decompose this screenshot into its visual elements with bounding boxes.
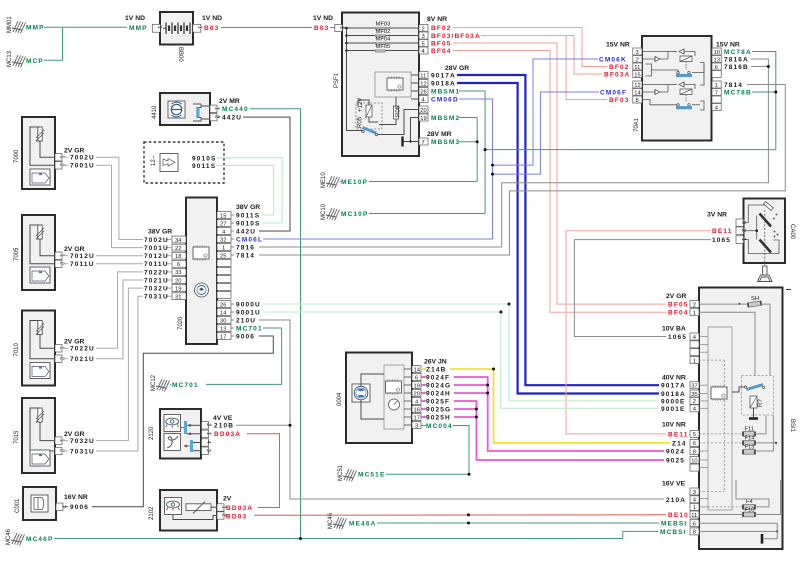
svg-text:9024G: 9024G: [426, 382, 451, 389]
wire B03 to PSF1: [221, 27, 312, 29]
svg-text:ME46A: ME46A: [349, 520, 376, 527]
wire MC46P: [54, 531, 658, 538]
svg-text:9025F: 9025F: [426, 398, 450, 405]
wire CM06F: [493, 92, 600, 174]
svg-text:11: 11: [691, 513, 697, 519]
svg-text:442U: 442U: [222, 115, 242, 122]
ground MC46 (MC46P): [6, 528, 25, 545]
wire 9024H: [421, 392, 426, 394]
wire MC78B: [752, 91, 776, 93]
BSI pin 11 (BE10): [690, 511, 699, 518]
svg-text:17: 17: [414, 415, 420, 421]
7005 pin 1: [55, 252, 62, 259]
svg-text:9000E: 9000E: [661, 398, 686, 405]
BSI pin 6 (Z14): [690, 439, 699, 446]
svg-text:19: 19: [175, 286, 181, 292]
wire BE11: [566, 231, 711, 434]
wire 9025G: [421, 408, 426, 410]
0004 pin 14: [412, 366, 421, 373]
svg-text:442U: 442U: [236, 228, 256, 235]
svg-text:SH: SH: [751, 296, 759, 302]
svg-text:8: 8: [636, 98, 639, 104]
svg-text:22: 22: [175, 246, 181, 252]
2120 pin 4: [202, 439, 209, 446]
svg-text:CA00: CA00: [789, 224, 795, 240]
svg-text:MC10P: MC10P: [341, 211, 368, 218]
svg-text:BD03A: BD03A: [214, 431, 241, 438]
7020 pin 13: [217, 325, 231, 332]
wire 9000U/9000E: [263, 304, 659, 401]
svg-text:32: 32: [220, 237, 226, 243]
7015 pin 1: [55, 437, 62, 444]
svg-text:12: 12: [634, 83, 640, 89]
ground MC10: [321, 203, 340, 220]
wire MMP: [44, 26, 127, 28]
svg-text:BB00: BB00: [177, 47, 183, 62]
wire 7011U: [96, 263, 143, 265]
7020 pin 18: [172, 252, 186, 259]
2120 pin 3: [202, 447, 209, 454]
BSI pin 1: [690, 309, 699, 316]
svg-text:BD03: BD03: [226, 513, 247, 520]
coolant temp indicator 2102: [149, 490, 217, 531]
svg-text:0004: 0004: [337, 392, 343, 406]
svg-text:MC78B: MC78B: [724, 90, 752, 97]
svg-text:MBSM3: MBSM3: [431, 139, 460, 146]
relay in BSI: [732, 376, 774, 419]
svg-text:15: 15: [220, 213, 226, 219]
svg-text:26: 26: [220, 302, 226, 308]
svg-text:7816B: 7816B: [724, 64, 749, 71]
svg-text:Z14B: Z14B: [426, 366, 447, 373]
wire 7814: [259, 85, 785, 256]
svg-text:2: 2: [636, 57, 639, 63]
junction on BD03/BE10: [467, 513, 470, 516]
4410 pin 1: [210, 105, 217, 112]
0004 pin 6: [412, 374, 421, 381]
70A1 left pins 3,2,11,15,12,14,8: [633, 48, 642, 55]
internal ground of BSI: [764, 531, 778, 538]
fusebox PSF1: [334, 13, 419, 157]
wire 9011S: [216, 165, 274, 215]
2120 pin 2: [202, 422, 209, 429]
svg-text:BF04: BF04: [668, 310, 689, 317]
internal ground of PSF1: [403, 141, 420, 143]
svg-text:7022U: 7022U: [144, 269, 169, 276]
svg-text:26V JN: 26V JN: [424, 358, 447, 365]
0004 pin 19: [412, 382, 421, 389]
wire BD03/BE10: [224, 514, 226, 516]
BSI pin 4 (1065): [690, 333, 699, 340]
svg-text:MC46: MC46: [6, 528, 12, 545]
wire MC004: [421, 425, 426, 427]
svg-text:210A: 210A: [666, 497, 686, 504]
svg-text:12--: 12--: [151, 155, 157, 166]
wire BF05: [453, 43, 666, 304]
wire 9017A: [457, 75, 659, 385]
wire BF02: [453, 28, 607, 67]
svg-text:2V GR: 2V GR: [64, 431, 84, 438]
svg-text:70A1: 70A1: [634, 117, 640, 132]
connector C001: [15, 487, 56, 520]
CA00 pin 3: [736, 219, 744, 227]
svg-text:2: 2: [740, 229, 746, 232]
wire 1065: [574, 240, 711, 337]
svg-text:2V GR: 2V GR: [64, 246, 84, 253]
svg-text:7001U: 7001U: [144, 245, 169, 252]
svg-text:16: 16: [414, 407, 420, 413]
svg-text:BSI1: BSI1: [789, 419, 795, 433]
svg-text:MBSM1: MBSM1: [431, 89, 460, 96]
wire MC701 ground stub: [170, 383, 171, 385]
7000 pin 1: [55, 154, 62, 161]
BSI pin 1 (10V BA): [690, 357, 699, 364]
svg-text:1065: 1065: [712, 237, 731, 244]
svg-text:PSF1: PSF1: [334, 72, 340, 88]
blower module 0004: [337, 353, 412, 444]
svg-text:BF02: BF02: [431, 25, 452, 32]
4410 pin 2: [210, 113, 217, 120]
engine ECU 7020: [178, 198, 217, 345]
BSI inner module: [708, 327, 732, 510]
junction MC004/MC51E: [468, 473, 471, 476]
svg-text:1: 1: [156, 26, 162, 29]
wire BF04: [453, 51, 666, 313]
PSF1 pin 19: [419, 114, 428, 121]
svg-text:9006: 9006: [70, 504, 89, 511]
wire 7021U: [96, 280, 143, 359]
svg-text:B03: B03: [314, 25, 329, 32]
BSI pin 37: [690, 382, 699, 389]
PSF1 pin 4: [419, 47, 428, 54]
svg-text:7015: 7015: [14, 430, 20, 444]
svg-text:9024F: 9024F: [426, 374, 450, 381]
svg-text:6: 6: [693, 522, 696, 528]
svg-text:20: 20: [414, 391, 420, 397]
2102 pin 2: [217, 512, 224, 519]
svg-text:MF02: MF02: [376, 29, 391, 35]
svg-text:9010S: 9010S: [192, 155, 217, 162]
svg-text:35: 35: [691, 392, 697, 398]
wire 9018A: [457, 83, 659, 394]
BSI pin 5: [690, 430, 699, 437]
svg-text:6: 6: [177, 262, 180, 268]
wire BD03A: [209, 433, 212, 435]
7020 pin 14: [217, 309, 231, 316]
svg-text:9001U: 9001U: [236, 309, 261, 316]
svg-text:15: 15: [634, 72, 640, 78]
svg-text:MC701: MC701: [236, 325, 263, 332]
70A1 internals: bottom relay: [642, 82, 704, 110]
wire MC78A: [752, 52, 776, 150]
wire 210B: [209, 424, 212, 426]
svg-text:7: 7: [715, 90, 718, 96]
BSI pin 2: [690, 301, 699, 308]
junctions CM06: [491, 164, 494, 167]
svg-text:BF02: BF02: [609, 64, 630, 71]
svg-text:1V ND: 1V ND: [313, 15, 333, 22]
svg-text:MC12: MC12: [151, 374, 157, 391]
svg-text:7010: 7010: [14, 342, 20, 356]
svg-text:MBSM2: MBSM2: [431, 115, 460, 122]
BSI pin 2 (9000E): [690, 397, 699, 404]
svg-text:7021U: 7021U: [144, 277, 169, 284]
wire 210U: [259, 320, 664, 499]
svg-text:210B: 210B: [214, 423, 234, 430]
ground MC13: [7, 50, 26, 67]
svg-text:20: 20: [420, 108, 426, 114]
svg-text:3V NR: 3V NR: [707, 212, 727, 219]
svg-text:16V NR: 16V NR: [64, 494, 88, 501]
svg-text:MC51: MC51: [338, 464, 344, 481]
svg-text:MMP: MMP: [129, 25, 148, 32]
svg-text:7002U: 7002U: [144, 237, 169, 244]
svg-text:7031U: 7031U: [144, 294, 169, 301]
key symbol below CA00: [758, 263, 773, 282]
svg-text:14: 14: [634, 90, 641, 96]
svg-text:1065: 1065: [668, 334, 687, 341]
svg-text:9017A: 9017A: [431, 73, 456, 80]
BSI pin 3: [690, 488, 699, 495]
fuse MF04: [375, 42, 385, 45]
wire MBSM3: [459, 142, 477, 182]
svg-text:5: 5: [422, 41, 425, 47]
70A1 internals: top relay: [642, 49, 704, 85]
svg-text:15V NR: 15V NR: [716, 41, 740, 48]
svg-text:7020: 7020: [178, 316, 184, 330]
7020 pin 26: [217, 301, 231, 308]
wire 7002U: [96, 157, 143, 239]
wire 7032U: [96, 288, 143, 441]
svg-text:7031U: 7031U: [70, 448, 95, 455]
svg-text:6: 6: [715, 65, 718, 71]
svg-text:1V ND: 1V ND: [202, 15, 222, 22]
svg-text:7814: 7814: [236, 252, 255, 259]
wire 7022U: [96, 272, 143, 348]
svg-text:MC13: MC13: [7, 50, 13, 67]
svg-text:MC78A: MC78A: [724, 49, 752, 56]
wire Z14B/Z14: [421, 368, 426, 370]
wire 7816B: [751, 66, 768, 68]
svg-text:ME10: ME10: [321, 172, 327, 188]
7020 pin 33: [172, 269, 186, 276]
wire BF03A: [481, 36, 602, 75]
7000 pin 2: [55, 162, 62, 169]
svg-text:7032U: 7032U: [144, 286, 169, 293]
7020 pin 22: [172, 244, 186, 251]
blue tick top right: [786, 289, 791, 291]
svg-text:7814: 7814: [724, 82, 743, 89]
svg-text:ME10P: ME10P: [341, 179, 368, 186]
svg-text:BE11: BE11: [712, 228, 733, 235]
wire 442U: [217, 116, 220, 118]
svg-text:R06: R06: [396, 105, 402, 117]
svg-text:BF03/BF03A: BF03/BF03A: [431, 33, 481, 40]
svg-text:3: 3: [205, 449, 211, 452]
svg-text:1: 1: [197, 26, 203, 29]
svg-text:7000: 7000: [14, 149, 20, 163]
wire MC701: [206, 328, 282, 384]
svg-text:7012U: 7012U: [70, 253, 95, 260]
svg-text:9017A: 9017A: [661, 383, 686, 390]
svg-text:BE10: BE10: [668, 512, 689, 519]
wire 9025F: [421, 400, 426, 402]
PSF1 pin 12: [419, 80, 428, 87]
svg-text:7: 7: [422, 140, 425, 146]
0004 pin 16: [412, 406, 421, 413]
svg-text:12: 12: [420, 81, 426, 87]
svg-text:2V GR: 2V GR: [64, 148, 84, 155]
wire 7001U: [96, 165, 143, 247]
svg-text:18: 18: [175, 254, 181, 260]
svg-text:28V MR: 28V MR: [427, 131, 452, 138]
svg-text:CM06D: CM06D: [431, 97, 459, 104]
PSF1 pin 20: [419, 106, 428, 113]
C001 pin 7: [56, 503, 63, 510]
svg-text:13: 13: [714, 57, 720, 63]
ground MM01: [7, 16, 26, 34]
horn 4410: [152, 93, 210, 125]
svg-text:3: 3: [422, 34, 425, 40]
svg-text:10: 10: [714, 50, 720, 56]
svg-text:37: 37: [691, 384, 697, 390]
svg-text:7012U: 7012U: [144, 253, 169, 260]
svg-text:9018A: 9018A: [431, 81, 456, 88]
svg-text:MC10: MC10: [321, 203, 327, 220]
svg-text:2V: 2V: [223, 496, 232, 503]
relay in PSF1: [356, 98, 382, 136]
svg-text:1: 1: [693, 505, 696, 511]
7005 pin 2: [55, 260, 62, 267]
2120 pin 1: [202, 430, 209, 437]
PSF1 pin 2: [419, 25, 428, 32]
7020 pin 4: [217, 228, 231, 235]
fuse MF03: [375, 27, 385, 30]
wires to pins 20/19 inside PSF1: [378, 110, 419, 135]
7020 pin 19: [172, 285, 186, 292]
svg-text:R?: R?: [758, 399, 764, 407]
7020 pin 30: [217, 317, 231, 324]
wire MC51E: [386, 473, 469, 475]
wire CM06L: [263, 238, 493, 240]
junction MBSM2/MBSM3: [476, 140, 479, 143]
svg-text:R05: R05: [358, 116, 364, 128]
0004 pin 3: [412, 422, 421, 429]
svg-text:15V NR: 15V NR: [606, 41, 630, 48]
ground MC12: [151, 374, 170, 391]
BSI pin 1 (16V VE): [690, 503, 699, 510]
wire ME10P: [340, 181, 341, 183]
svg-text:4410: 4410: [152, 105, 158, 119]
wire 7816A: [259, 59, 768, 247]
svg-text:34: 34: [175, 238, 182, 244]
junction 210B/210U: [289, 424, 292, 427]
junction on ME46A: [467, 522, 470, 525]
7020 pin 31: [172, 293, 186, 300]
svg-text:1: 1: [715, 83, 718, 89]
wire CM06D: [459, 99, 493, 239]
svg-text:9024H: 9024H: [426, 390, 451, 397]
svg-text:210U: 210U: [236, 317, 256, 324]
svg-text:MC440: MC440: [222, 106, 249, 113]
svg-text:1: 1: [339, 26, 345, 29]
body controller BSI1: [699, 288, 795, 550]
svg-text:2V GR: 2V GR: [666, 293, 686, 300]
PSF1 pin 26: [419, 88, 428, 95]
svg-text:1: 1: [693, 311, 696, 317]
CA00 pin 1: [736, 236, 744, 244]
svg-text:BF03A: BF03A: [604, 72, 630, 79]
fuse MF02: [375, 35, 385, 38]
wire 9010S: [216, 158, 282, 223]
svg-text:2V MR: 2V MR: [219, 98, 240, 105]
svg-text:BE11: BE11: [668, 431, 689, 438]
0004 pin 20: [412, 390, 421, 397]
ground MC51: [338, 464, 357, 481]
svg-text:CM06F: CM06F: [600, 90, 627, 97]
svg-text:MEBSI: MEBSI: [661, 521, 687, 528]
svg-text:10V BA: 10V BA: [662, 325, 686, 332]
PSF1 pin 4b: [419, 96, 428, 103]
svg-text:MC701: MC701: [172, 382, 199, 389]
svg-text:10V NR: 10V NR: [662, 421, 686, 428]
battery BB00: [152, 12, 202, 62]
7010 pin 2: [55, 355, 62, 362]
0004 pin 17: [412, 414, 421, 421]
svg-text:40V NR: 40V NR: [662, 374, 686, 381]
svg-text:5: 5: [693, 432, 696, 438]
BSI pin 6 (MEBSI): [690, 520, 699, 527]
7020 pin 32: [217, 236, 231, 243]
svg-text:33: 33: [175, 270, 181, 276]
7020 pin 6: [172, 260, 186, 267]
svg-text:2: 2: [422, 26, 425, 32]
ground ME10: [321, 172, 340, 189]
wire 7031U: [96, 296, 143, 451]
wire ME46A: [377, 522, 659, 524]
svg-text:MCBSI: MCBSI: [660, 529, 687, 536]
svg-text:7011U: 7011U: [144, 261, 169, 268]
sensor 7015: [14, 398, 55, 473]
PSF1 pin 7: [419, 138, 428, 145]
svg-text:Z14: Z14: [672, 440, 687, 447]
svg-text:MCP: MCP: [26, 58, 44, 65]
svg-text:1: 1: [693, 358, 696, 364]
7020 pin 15: [217, 212, 231, 219]
wire MCP: [44, 27, 63, 60]
BSI pin 8 (9024): [690, 448, 699, 455]
svg-text:8: 8: [693, 449, 696, 455]
wire BF03 branch: [566, 36, 607, 100]
svg-text:7022U: 7022U: [70, 346, 95, 353]
junction MC440/MC46P: [299, 537, 302, 540]
svg-text:BF04: BF04: [431, 48, 452, 55]
svg-text:CM06K: CM06K: [599, 57, 627, 64]
controller block inside PSF1: [375, 72, 411, 97]
svg-text:CM06L: CM06L: [236, 236, 263, 243]
svg-text:9001E: 9001E: [661, 406, 686, 413]
svg-text:13: 13: [220, 326, 226, 332]
svg-text:1: 1: [740, 238, 746, 241]
svg-text:MF03: MF03: [376, 22, 391, 28]
7020 pin 17: [217, 333, 231, 340]
7020 pin 25: [217, 252, 231, 259]
diagnostic connector box 12--: [144, 142, 224, 183]
7020 pin 27: [217, 220, 231, 227]
BSI pin 4 (9001E): [690, 405, 699, 412]
wire MC78 bus to MBSM1: [485, 149, 776, 151]
svg-text:2: 2: [693, 399, 696, 405]
